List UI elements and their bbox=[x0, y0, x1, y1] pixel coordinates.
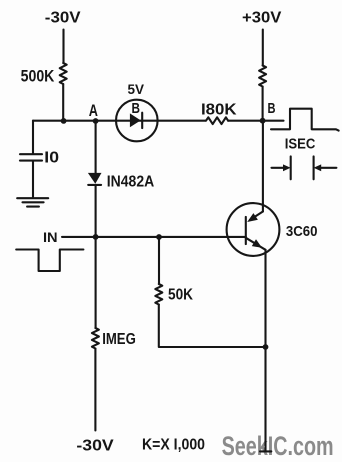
transistor Q1 base bar bbox=[245, 217, 247, 244]
wire +30V lead down bbox=[262, 30, 264, 66]
bottom terminal bar bbox=[260, 450, 271, 452]
wire -30V lead down to 500K bbox=[62, 30, 64, 64]
wire 50K bottom to emitter junction bbox=[159, 305, 266, 348]
dimension bar right bbox=[313, 156, 315, 179]
svg-text:-30V: -30V bbox=[45, 9, 81, 26]
svg-text:A: A bbox=[89, 102, 98, 120]
svg-text:-30V: -30V bbox=[76, 437, 114, 454]
IN pulse waveform bbox=[16, 250, 83, 272]
dimension bar left bbox=[290, 156, 292, 179]
resistor R1 500K bbox=[60, 63, 67, 84]
svg-text:I80K: I80K bbox=[201, 101, 237, 118]
svg-text:B: B bbox=[268, 101, 276, 117]
junction dot A/IN bbox=[93, 234, 99, 240]
svg-text:IN: IN bbox=[43, 229, 58, 245]
diode D1 cathode bar bbox=[141, 113, 143, 128]
wire 1MEG top lead bbox=[95, 237, 97, 328]
capacitor C1 top plate bbox=[20, 153, 42, 155]
dimension arrow right bbox=[321, 167, 336, 169]
wire collector down rail bbox=[264, 250, 266, 451]
wire IN row bbox=[62, 236, 246, 238]
wire 1MEG bottom lead bbox=[94, 349, 96, 431]
wire node A down to diode bbox=[95, 121, 97, 173]
svg-text:50K: 50K bbox=[168, 287, 193, 304]
svg-text:ISEC: ISEC bbox=[285, 137, 316, 153]
svg-text:3C60: 3C60 bbox=[286, 223, 318, 240]
transistor Q1 circle bbox=[227, 203, 280, 256]
svg-text:500K: 500K bbox=[21, 67, 55, 86]
wire 500K to node row bbox=[62, 84, 64, 121]
svg-text:B: B bbox=[132, 101, 141, 117]
capacitor C1 bottom plate bbox=[20, 160, 42, 162]
svg-text:SeekIC.com: SeekIC.com bbox=[222, 431, 334, 461]
wire resistor to node B bbox=[262, 87, 264, 121]
junction dot 50K/IN bbox=[156, 234, 162, 240]
wire horizontal A row bbox=[33, 120, 206, 122]
resistor R5 collector load bbox=[259, 66, 266, 87]
svg-text:IN482A: IN482A bbox=[107, 173, 155, 190]
diode D1 triangle (in circle) bbox=[130, 113, 141, 127]
wire 50K top lead bbox=[158, 237, 160, 284]
diode D2 1N482A triangle bbox=[88, 173, 102, 184]
junction dot 500K bbox=[61, 118, 67, 124]
transistor Q1 collector lead with arrow bbox=[246, 238, 266, 250]
ground bbox=[17, 198, 48, 206]
resistor R2 180K bbox=[206, 117, 228, 124]
wire 180K to node B with stub bbox=[228, 120, 283, 122]
op-amp U1 breakdown-diode circle 5V bbox=[116, 100, 158, 142]
svg-text:+30V: +30V bbox=[242, 9, 282, 26]
wire capacitor branch corner bbox=[32, 121, 34, 153]
resistor R3 50K bbox=[155, 284, 162, 304]
wire capacitor to ground bbox=[32, 162, 34, 197]
svg-text:K=X I,000: K=X I,000 bbox=[142, 437, 205, 454]
svg-text:5V: 5V bbox=[128, 81, 145, 97]
dimension arrow left bbox=[272, 167, 284, 169]
resistor R4 1MEG bbox=[92, 328, 99, 348]
wire diode to IN row bbox=[95, 186, 97, 237]
node A dot bbox=[93, 118, 99, 124]
node B dot bbox=[260, 118, 266, 124]
svg-text:I0: I0 bbox=[44, 150, 59, 167]
diode D2 cathode bar bbox=[88, 184, 101, 186]
wire node B down to transistor bbox=[262, 121, 264, 212]
svg-text:IMEG: IMEG bbox=[102, 331, 136, 348]
transistor Q1 emitter lead with arrow bbox=[250, 212, 263, 220]
output pulse waveform 1SEC bbox=[271, 109, 339, 131]
junction dot emitter bbox=[263, 344, 269, 350]
